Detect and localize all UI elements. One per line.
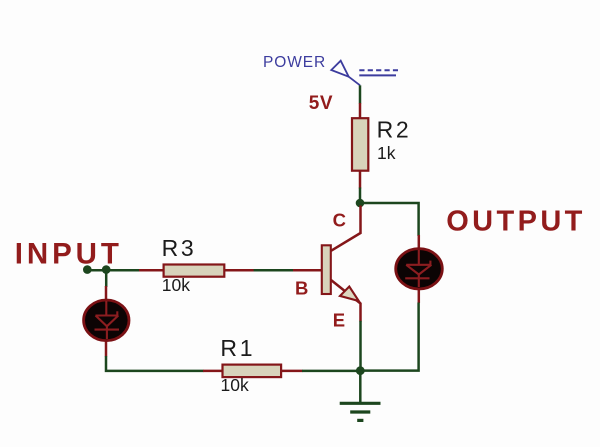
svg-text:C: C [333, 210, 346, 231]
wire power to R2 [359, 85, 362, 103]
power terminal [331, 61, 398, 86]
resistor R2 [352, 103, 368, 189]
svg-text:5V: 5V [309, 93, 333, 114]
resistor R3 [139, 265, 254, 277]
node collector junction [356, 199, 365, 208]
wire R2 to collector node [359, 188, 362, 204]
node input terminal [83, 265, 92, 274]
svg-text:POWER: POWER [263, 54, 326, 71]
svg-text:OUTPUT: OUTPUT [446, 205, 586, 237]
node input junction [102, 265, 111, 274]
svg-text:R2: R2 [377, 117, 412, 143]
node bottom junction [356, 366, 365, 375]
ground [340, 371, 381, 421]
wire R3 to base [254, 269, 294, 272]
svg-text:B: B [295, 277, 308, 298]
svg-text:E: E [333, 309, 345, 330]
wire LED output to bottom junction [360, 303, 419, 371]
wire input to R3 [87, 269, 140, 272]
LED D2 output [396, 235, 443, 303]
wire input junction down [105, 270, 108, 287]
LED D1 input [84, 286, 129, 357]
transistor Q1 [293, 206, 361, 322]
resistor R1 [203, 365, 303, 378]
svg-text:10k: 10k [162, 275, 190, 295]
svg-text:R3: R3 [162, 235, 197, 261]
wire node to output branch [360, 203, 419, 236]
svg-text:10k: 10k [221, 375, 249, 395]
wire emitter to bottom junction [359, 321, 362, 371]
svg-text:R1: R1 [220, 335, 255, 361]
svg-text:1k: 1k [377, 143, 396, 163]
wire LED input to bottom row [106, 356, 204, 371]
wire R1 to bottom junction [302, 370, 360, 373]
